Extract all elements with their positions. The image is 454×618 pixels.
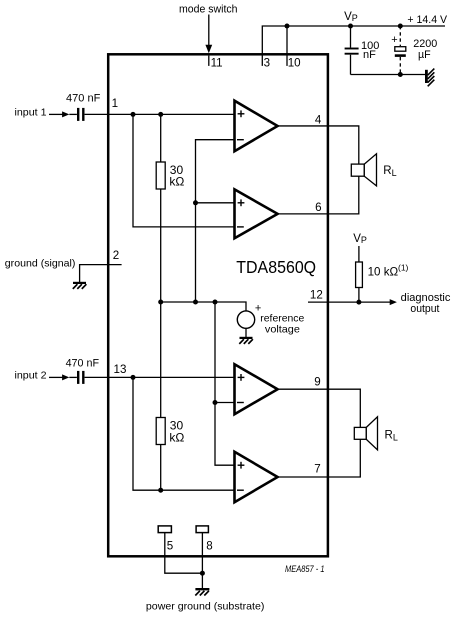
wire input 2 arrow [49, 376, 64, 378]
resistor R2 30 kOhm (bottom) [160, 302, 162, 418]
svg-text:kΩ: kΩ [169, 175, 184, 189]
op-amp U1B [235, 189, 278, 238]
svg-text:output: output [410, 303, 439, 315]
capacitor C4 470 nF plates [77, 371, 79, 384]
junction A2 + branch [193, 200, 198, 205]
wire load to pin 7 / A4 output [278, 439, 361, 477]
junction rail 30k [158, 300, 163, 305]
wire load to pin 6 / A2 output [278, 176, 359, 214]
wire to A2 non-inverting input [196, 202, 235, 204]
junction rail lower branch [213, 300, 218, 305]
pin 5 tab [158, 526, 171, 533]
svg-text:6: 6 [315, 201, 321, 214]
op-amp U1A [235, 101, 278, 152]
svg-text:mode switch: mode switch [179, 3, 238, 15]
pin 11 stub [208, 56, 210, 66]
svg-text:10 kΩ: 10 kΩ [368, 266, 399, 279]
svg-text:12: 12 [310, 288, 323, 301]
svg-text:input 1: input 1 [15, 108, 47, 119]
svg-text:(1): (1) [398, 263, 409, 273]
svg-text:MEA857 - 1: MEA857 - 1 [285, 564, 325, 574]
svg-text:13: 13 [114, 363, 127, 376]
op-amp U1C [235, 364, 278, 414]
svg-text:kΩ: kΩ [169, 430, 184, 444]
svg-text:1: 1 [112, 97, 118, 110]
svg-text:VP: VP [344, 11, 358, 23]
junction pin1 feedback branch [131, 112, 136, 117]
svg-text:4: 4 [315, 114, 322, 127]
arrowhead mode switch [205, 45, 212, 54]
svg-text:+: + [391, 34, 397, 46]
wire pin 1 to op-amp A1 + input [85, 113, 235, 115]
svg-text:power ground (substrate): power ground (substrate) [146, 601, 265, 613]
op-amp U1D [235, 452, 278, 502]
wire mode switch into pin 11 [208, 15, 210, 47]
wire pin 5 down to junction [165, 533, 203, 574]
ground signal symbol [73, 282, 86, 284]
wire pin 3 up and across to VP rail [262, 26, 445, 66]
svg-text:VP: VP [353, 233, 367, 245]
svg-text:2200: 2200 [413, 38, 437, 50]
IC outline U1 TDA8560Q [108, 54, 328, 556]
wire pin 8 down to power ground [201, 533, 203, 588]
wire A3 output to pin 9 and load [278, 389, 361, 427]
junction 10k/diagnostic [356, 300, 361, 305]
wire pin 13 to op-amp A3 + input [85, 376, 235, 378]
speaker RL (bottom) [354, 427, 366, 439]
junction 30k on A4- line [158, 488, 163, 493]
ground power symbol [195, 588, 209, 590]
svg-text:+ 14.4 V: + 14.4 V [407, 14, 447, 26]
svg-text:nF: nF [363, 49, 376, 61]
wire feedback pin1 to A2 inverting input [133, 114, 235, 226]
junction power ground [200, 571, 205, 576]
svg-text:2: 2 [113, 249, 119, 262]
wire rail to A3- / A4+ node [215, 302, 235, 465]
svg-text:470 nF: 470 nF [66, 93, 101, 105]
wire pin 2 to signal ground [80, 265, 122, 283]
capacitor C1 100 nF [350, 26, 352, 48]
junction VP [348, 24, 353, 29]
svg-text:3: 3 [264, 56, 270, 69]
junction pin13 feedback branch [131, 375, 136, 380]
junction A3 - branch [213, 400, 218, 405]
svg-text:470 nF: 470 nF [66, 358, 100, 370]
svg-text:voltage: voltage [265, 325, 300, 336]
pin 8 tab [196, 526, 208, 533]
wire reference rail [161, 302, 246, 311]
ground reference symbol [240, 337, 253, 339]
wire pin 12 diagnostic output [308, 301, 390, 303]
wire input 1 arrow [49, 113, 64, 115]
capacitor C3 470 nF plates [77, 108, 79, 121]
wire pin 10 up to rail [286, 26, 288, 66]
resistor R1 30 kOhm (top) [160, 114, 162, 162]
chassis ground top right [425, 70, 428, 83]
wire reference to ground [245, 328, 247, 337]
speaker RL (top) [351, 164, 364, 176]
svg-text:reference: reference [260, 313, 304, 324]
svg-text:7: 7 [314, 463, 320, 476]
junction rail A1- node [193, 300, 198, 305]
svg-text:9: 9 [314, 375, 320, 388]
reference voltage source [237, 311, 254, 328]
wire A1 inverting input to node [196, 140, 235, 302]
svg-text:10: 10 [288, 56, 301, 69]
svg-text:TDA8560Q: TDA8560Q [236, 258, 316, 277]
resistor R3 10 kOhm [358, 246, 360, 262]
svg-text:5: 5 [167, 540, 173, 553]
svg-text:11: 11 [211, 56, 223, 69]
junction pin1 30k branch [158, 112, 163, 117]
wire to A3 inverting input [215, 402, 235, 404]
svg-text:8: 8 [206, 540, 212, 553]
wire feedback pin13 to A4 inverting input [133, 377, 235, 490]
wire ground rail top right [351, 74, 427, 76]
svg-text:µF: µF [418, 49, 431, 61]
svg-text:input 2: input 2 [15, 371, 47, 382]
wire A1 output to pin 4 and load [278, 126, 359, 164]
junction pin10/rail [285, 24, 290, 29]
svg-text:ground (signal): ground (signal) [5, 258, 76, 270]
